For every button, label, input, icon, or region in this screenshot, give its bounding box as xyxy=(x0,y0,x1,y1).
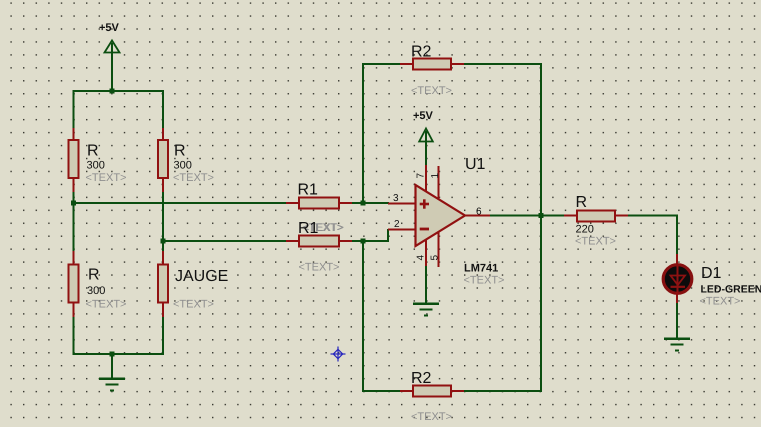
svg-text:+5V: +5V xyxy=(99,22,120,34)
svg-text:3: 3 xyxy=(393,193,399,204)
LED D1 anode lead xyxy=(676,254,678,266)
svg-text:<TEXT>: <TEXT> xyxy=(173,299,214,311)
resistor R bottom-left 300 xyxy=(69,251,127,317)
resistor R2 top feedback xyxy=(362,44,542,98)
svg-text:JAUGE: JAUGE xyxy=(175,268,228,285)
svg-text:7: 7 xyxy=(416,173,427,179)
svg-text:U1: U1 xyxy=(465,156,486,173)
op-amp U1 LM741 xyxy=(416,156,505,287)
svg-text:R: R xyxy=(88,267,100,284)
resistor R top-left 300 xyxy=(69,128,127,192)
svg-text:<TEXT>: <TEXT> xyxy=(173,172,214,184)
svg-text:2: 2 xyxy=(394,219,400,230)
junction node A xyxy=(71,200,76,205)
svg-text:300: 300 xyxy=(87,285,105,297)
wire vertical to bottom R2 xyxy=(362,241,364,392)
svg-text:D1: D1 xyxy=(701,265,722,282)
resistor R top-right 300 xyxy=(158,128,214,192)
pin 4 lead xyxy=(425,240,427,268)
svg-text:R: R xyxy=(174,143,186,160)
svg-text:R1: R1 xyxy=(298,220,319,237)
svg-text:<TEXT>: <TEXT> xyxy=(464,275,505,287)
svg-text:<TEXT>: <TEXT> xyxy=(575,236,616,248)
pin 2 stub xyxy=(388,229,415,231)
svg-text:R: R xyxy=(87,143,99,160)
wire bridge left column xyxy=(72,90,74,355)
node B wire from gauge xyxy=(163,240,287,242)
svg-text:<TEXT>: <TEXT> xyxy=(86,299,127,311)
svg-text:R2: R2 xyxy=(411,44,432,61)
pin 5 lead xyxy=(438,232,440,267)
pin 3 stub xyxy=(388,203,415,205)
svg-text:+5V: +5V xyxy=(413,110,434,122)
svg-text:<TEXT>: <TEXT> xyxy=(411,411,452,423)
wire R1 lower to opamp step xyxy=(352,229,389,242)
wire R1 upper to opamp xyxy=(352,202,389,204)
svg-text:<TEXT>: <TEXT> xyxy=(411,85,452,97)
resistor JAUGE strain gauge xyxy=(158,251,228,317)
wire bridge bottom horizontal xyxy=(73,353,165,355)
wire opamp ground stem xyxy=(425,266,427,303)
wire R to LED xyxy=(628,215,678,255)
wire output run xyxy=(490,214,565,216)
junction R2 tap upper xyxy=(360,200,365,205)
svg-text:R: R xyxy=(576,194,588,211)
ground LED xyxy=(664,338,690,352)
ground bridge xyxy=(99,378,125,392)
junction R2 tap lower xyxy=(360,238,365,243)
LED D1 cathode lead xyxy=(676,292,678,304)
pin 6 output stub xyxy=(464,215,491,217)
node A wire to pin 3 xyxy=(74,202,288,204)
resistor R 220 xyxy=(564,194,629,248)
wire right vertical output loop xyxy=(540,63,542,392)
svg-text:<TEXT>: <TEXT> xyxy=(86,172,127,184)
wire bridge right column xyxy=(162,90,164,355)
svg-text:<TEXT>: <TEXT> xyxy=(700,296,741,308)
junction bridge bottom xyxy=(109,351,114,356)
power +5V bridge supply xyxy=(99,22,120,92)
resistor R1 upper xyxy=(286,182,353,235)
resistor R2 bottom feedback xyxy=(362,370,542,423)
junction bridge top xyxy=(109,88,114,93)
LED D1 xyxy=(663,265,761,308)
wire vertical to top R2 xyxy=(362,63,364,203)
wire ground stem bridge xyxy=(111,354,113,378)
svg-text:<TEXT>: <TEXT> xyxy=(299,262,340,274)
origin marker xyxy=(331,347,346,362)
svg-text:300: 300 xyxy=(87,160,105,172)
svg-text:300: 300 xyxy=(174,160,192,172)
pin 7 lead xyxy=(425,165,427,192)
resistor R1 lower xyxy=(286,220,353,274)
svg-text:220: 220 xyxy=(576,224,594,236)
svg-text:1: 1 xyxy=(430,173,441,179)
svg-text:LM741: LM741 xyxy=(464,263,498,275)
pin 1 lead xyxy=(438,166,440,200)
svg-text:R2: R2 xyxy=(411,370,432,387)
power +5V opamp supply xyxy=(413,110,434,166)
wire bridge top horizontal xyxy=(73,90,165,92)
wire LED ground stem xyxy=(676,303,678,338)
junction node B xyxy=(160,238,165,243)
svg-text:4: 4 xyxy=(416,255,427,261)
junction output node xyxy=(538,213,543,218)
svg-text:LED-GREEN: LED-GREEN xyxy=(701,284,761,296)
svg-text:R1: R1 xyxy=(298,182,319,199)
ground opamp xyxy=(413,303,439,317)
